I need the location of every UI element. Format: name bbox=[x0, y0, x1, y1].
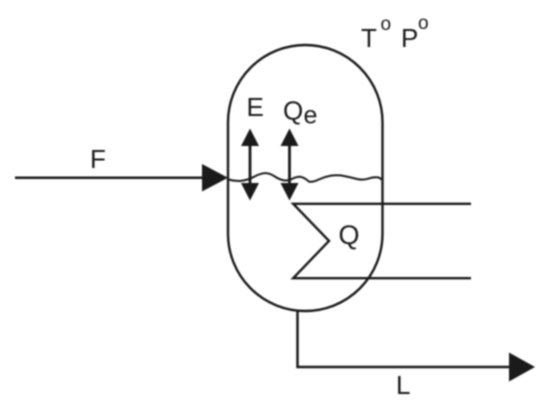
svg-text:E: E bbox=[247, 92, 264, 122]
svg-text:P: P bbox=[401, 23, 418, 53]
svg-text:o: o bbox=[418, 13, 429, 34]
svg-text:e: e bbox=[304, 102, 318, 130]
svg-text:F: F bbox=[90, 144, 106, 174]
svg-text:Q: Q bbox=[339, 220, 360, 250]
svg-text:Q: Q bbox=[283, 96, 303, 126]
svg-text:L: L bbox=[396, 370, 410, 400]
svg-text:T: T bbox=[361, 23, 377, 53]
svg-text:o: o bbox=[381, 14, 392, 35]
